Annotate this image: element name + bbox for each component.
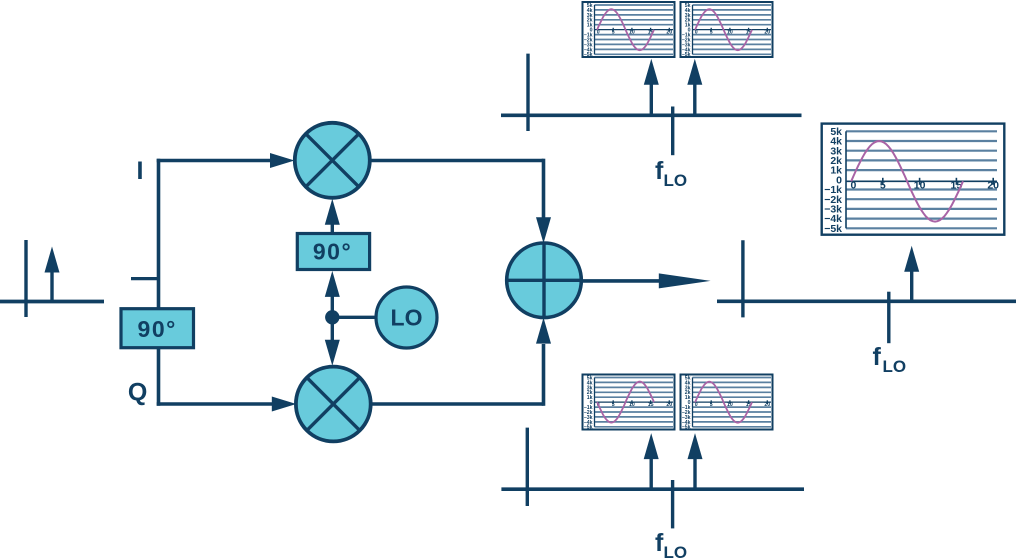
wire M2 to summer	[371, 318, 551, 406]
svg-text:−5k: −5k	[824, 223, 842, 235]
oscillator LO	[376, 287, 437, 348]
summer S1	[507, 243, 582, 318]
label fLO top	[655, 157, 687, 190]
svg-text:5: 5	[880, 180, 886, 192]
svg-text:90°: 90°	[138, 316, 177, 342]
waveform plot P3 (bottom left, inverted)	[583, 375, 675, 431]
mixer M1	[295, 123, 370, 198]
output spectrum axis	[717, 240, 1016, 343]
wire M1 to summer	[370, 159, 551, 244]
svg-text:f: f	[873, 343, 882, 371]
svg-text:I: I	[137, 157, 144, 185]
waveform plot P1 (top left, I x LO)	[583, 2, 675, 58]
svg-text:LO: LO	[883, 357, 907, 376]
svg-text:LO: LO	[391, 305, 423, 331]
input spectrum axis	[0, 240, 104, 317]
svg-text:20: 20	[987, 180, 999, 192]
waveform plot P2 (top right)	[681, 2, 773, 58]
svg-text:LO: LO	[664, 543, 688, 559]
wire junction to M2 arrow	[325, 317, 340, 366]
phase shifter 90deg B2 (LO)	[297, 234, 369, 270]
svg-text:90°: 90°	[313, 239, 352, 265]
label fLO bottom	[655, 529, 687, 559]
phase shifter 90deg B1 (input)	[121, 309, 194, 348]
wire B2 to M1 arrow	[325, 199, 340, 234]
mixer M2	[296, 367, 371, 442]
wire LO to junction	[332, 316, 377, 319]
svg-text:Q: Q	[128, 379, 147, 407]
junction node	[325, 310, 339, 324]
lower sideband spectrum axis	[501, 428, 804, 529]
wire I/Q vertical splitter	[157, 159, 161, 406]
waveform plot P5 (output, large)	[822, 124, 1005, 235]
upper sideband impulse arrows	[644, 59, 703, 116]
wire summer output arrow	[581, 273, 710, 288]
svg-text:0: 0	[851, 180, 857, 192]
output impulse arrow	[904, 246, 919, 301]
wire Q to mixer M2	[157, 397, 297, 412]
upper sideband spectrum axis	[501, 54, 802, 156]
wire I to mixer M1	[157, 153, 295, 168]
lower sideband impulse arrows	[644, 433, 703, 489]
label fLO right	[873, 343, 907, 376]
svg-text:LO: LO	[664, 171, 688, 190]
waveform plot P4 (bottom right)	[681, 375, 773, 431]
svg-text:10: 10	[914, 180, 926, 192]
wire junction to B2 arrow	[325, 271, 340, 317]
input spectrum impulse arrow	[45, 247, 60, 302]
wire input stub	[131, 277, 159, 280]
